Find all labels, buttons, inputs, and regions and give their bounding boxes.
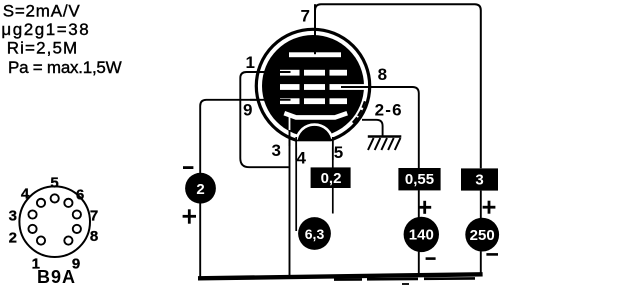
svg-text:3: 3 — [475, 171, 483, 188]
svg-text:140: 140 — [409, 227, 434, 244]
anode lead pin 7 — [314, 4, 316, 54]
B9A pin 4 — [37, 199, 45, 207]
screen supply 140 circle — [404, 217, 439, 252]
tube internal black fill — [262, 35, 364, 137]
anode plate bar — [289, 52, 341, 57]
bus print echo dashes — [334, 278, 475, 279]
cathode — [284, 113, 347, 117]
svg-text:S=2mA/V: S=2mA/V — [3, 1, 81, 20]
svg-text:2-6: 2-6 — [375, 101, 403, 120]
tube V1 envelope — [256, 29, 369, 142]
svg-text:1: 1 — [246, 53, 255, 72]
heater filament dome — [296, 125, 333, 149]
svg-text:250: 250 — [470, 227, 495, 244]
meter box 0,55 — [398, 168, 440, 190]
grid lead pin 9 overlap — [250, 99, 291, 101]
B9A pin 7 — [73, 210, 81, 218]
B9A pin 1 — [37, 236, 45, 244]
grid lead pin 1 overlap — [250, 71, 291, 73]
wire anode branch meter to bus — [480, 251, 482, 275]
grid row g3 (dashes) — [280, 70, 347, 76]
B9A pin 8 — [73, 225, 81, 233]
grid row g2 (dashes) — [280, 84, 366, 90]
svg-text:6,3: 6,3 — [305, 226, 325, 242]
svg-text:8: 8 — [90, 228, 98, 245]
svg-text:7: 7 — [301, 6, 310, 25]
wire anode top (pin 7 to 250V branch) — [315, 4, 481, 168]
bias battery 2V circle — [185, 173, 216, 204]
white gap below heater dome — [297, 141, 332, 147]
B9A pin number labels — [9, 175, 99, 273]
wire anode branch box to meter — [480, 191, 482, 219]
wire bias battery to bottom bus — [199, 203, 201, 277]
svg-text:6: 6 — [76, 187, 84, 204]
svg-text:3: 3 — [272, 141, 281, 160]
B9A pin 3 — [28, 210, 36, 218]
ground symbol — [368, 137, 402, 151]
wire pins 2-6 to ground — [362, 120, 383, 136]
screen lead pin 8 overlap — [341, 86, 372, 88]
wire heater pin 4 down to 6,3 supply — [295, 140, 297, 231]
svg-text:5: 5 — [50, 175, 58, 192]
bottom bus wire — [198, 274, 483, 278]
meter box 0,2 — [311, 167, 351, 188]
wire grid g3 (pin 1) bracket down to cathode line — [240, 72, 290, 167]
heater legs pins 4,5 — [295, 137, 297, 160]
svg-text:3: 3 — [9, 208, 17, 225]
wire screen branch meter to bus — [418, 252, 420, 276]
svg-text:4: 4 — [21, 186, 30, 203]
svg-text:4: 4 — [297, 148, 307, 167]
svg-text:B9A: B9A — [37, 267, 76, 286]
polarity minus (140 bottom) — [426, 257, 436, 260]
polarity plus (250 top) — [483, 201, 496, 214]
svg-text:0,2: 0,2 — [321, 170, 342, 187]
svg-text:μg2g1=38: μg2g1=38 — [1, 20, 90, 39]
svg-text:9: 9 — [243, 101, 252, 120]
wire screen lead pin 8 to 140V branch — [341, 87, 419, 168]
cathode lead white segment inside bulb — [289, 115, 291, 132]
wire grid g1 (pin 9) left to bias battery — [200, 100, 290, 174]
wire heater pin 5 through 0,2 box, dotted end — [332, 140, 334, 168]
svg-text:7: 7 — [90, 208, 98, 225]
anode supply 250 circle — [465, 218, 499, 252]
svg-text:Ri=2,5M: Ri=2,5M — [7, 39, 78, 58]
polarity plus (bias bottom) — [183, 209, 196, 223]
B9A pin 6 — [64, 199, 72, 207]
B9A base outline — [19, 186, 90, 257]
heater supply 6,3 circle — [298, 217, 331, 250]
polarity minus (bias top) — [183, 166, 193, 169]
svg-text:5: 5 — [334, 143, 343, 162]
B9A pin 9 — [64, 236, 72, 244]
cathode lead pin 3 crossing envelope — [289, 130, 291, 146]
svg-text:2: 2 — [196, 181, 204, 198]
wire screen branch box to meter — [418, 190, 420, 217]
polarity plus (140 top) — [418, 201, 431, 214]
B9A pin 2 — [28, 225, 36, 233]
svg-text:0,55: 0,55 — [405, 171, 434, 188]
internal shield connection marks (pins 2-6) on envelope ring — [353, 101, 365, 123]
svg-text:Pa = max.1,5W: Pa = max.1,5W — [8, 58, 122, 77]
polarity minus (250 bottom) — [486, 253, 498, 256]
wire cathode (pin 3) down to bus — [289, 131, 291, 277]
B9A pin 5 — [51, 194, 59, 202]
svg-text:8: 8 — [378, 65, 387, 84]
svg-text:2: 2 — [9, 230, 17, 247]
grid row g1 (dashes) — [280, 98, 347, 104]
meter box 3 — [461, 168, 498, 190]
